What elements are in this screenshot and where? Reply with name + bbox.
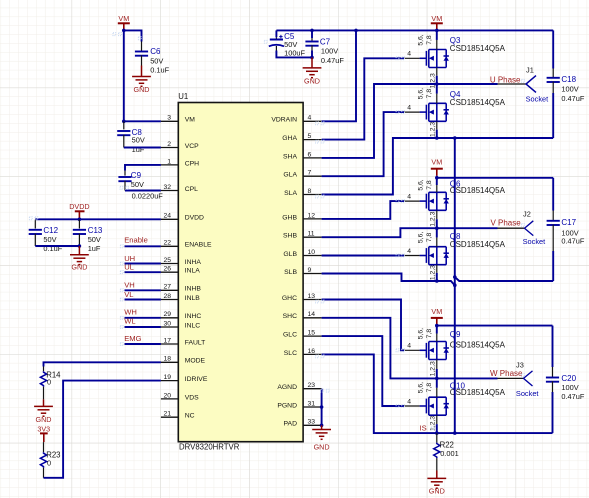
svg-text:4: 4: [308, 115, 312, 122]
wire V Phase node: [322, 228, 498, 237]
svg-text:4: 4: [407, 248, 411, 255]
wire net UL: [125, 271, 161, 273]
svg-text:GND: GND: [314, 442, 330, 451]
capacitor C17: [547, 178, 585, 281]
svg-text:VDRAIN: VDRAIN: [271, 117, 297, 124]
wire C8 to VCP pin 2: [124, 147, 161, 149]
node PGND: [320, 405, 324, 409]
wire SLC / bottom rail C: [322, 354, 553, 433]
U1 pin 28 INLB: [161, 293, 200, 302]
svg-text:C7: C7: [320, 37, 331, 46]
U1 pin 26 INLA: [161, 266, 200, 275]
svg-text:10: 10: [308, 249, 316, 256]
svg-text:0: 0: [47, 459, 51, 468]
svg-text:VDS: VDS: [185, 394, 199, 401]
svg-text:4: 4: [407, 194, 411, 201]
svg-text:1uF: 1uF: [132, 145, 145, 154]
wire net VL: [125, 299, 161, 301]
node bus top: [453, 136, 457, 140]
svg-text:CSD18514Q5A: CSD18514Q5A: [450, 44, 506, 53]
node Q4 source: [435, 136, 439, 140]
wire VM rail B: [437, 176, 553, 178]
svg-text:SHA: SHA: [283, 153, 297, 160]
svg-text:CPL: CPL: [185, 186, 198, 193]
node VM phase A: [435, 29, 439, 33]
svg-text:FAULT: FAULT: [185, 339, 206, 346]
wire VM rail C: [437, 324, 553, 327]
svg-text:U1: U1: [178, 92, 188, 101]
svg-text:SHC: SHC: [283, 313, 297, 320]
svg-text:5,6,: 5,6,: [417, 88, 424, 99]
node VDRAIN/rail: [354, 29, 358, 33]
wire net VH: [125, 289, 161, 291]
svg-text:25: 25: [163, 257, 171, 264]
U1 pin 12 GHB: [282, 212, 321, 221]
svg-text:23: 23: [308, 382, 316, 389]
node phase C: [435, 377, 439, 381]
transistor Q9 CSD18514Q5A: [404, 326, 449, 379]
U1 pin 14 SHC: [283, 311, 322, 320]
svg-text:1uF: 1uF: [88, 244, 101, 253]
svg-text:GLB: GLB: [283, 251, 297, 258]
U1 pin 15 GLC: [283, 330, 322, 339]
wire GLB to Q8 gate: [322, 255, 404, 257]
svg-text:GHC: GHC: [282, 295, 297, 302]
wire C9 to CPL pin 32: [125, 190, 161, 192]
U1 pin 18 MODE: [161, 356, 206, 365]
svg-text:CSD18514Q5A: CSD18514Q5A: [450, 341, 506, 350]
svg-text:EMG: EMG: [124, 334, 141, 343]
wire MODE to R14: [44, 362, 161, 366]
svg-text:VM: VM: [118, 14, 129, 23]
svg-text:PAD: PAD: [284, 421, 298, 428]
ground (C5/C7): [303, 57, 322, 85]
node pin 3 / C8: [122, 120, 126, 124]
svg-text:26: 26: [163, 266, 171, 273]
svg-text:C20: C20: [561, 374, 576, 383]
ground (U1 PAD): [312, 425, 331, 451]
svg-text:5,6,: 5,6,: [417, 179, 424, 190]
capacitor C5 (polarized): [269, 30, 312, 57]
U1 pin 8 SLA: [284, 188, 321, 197]
svg-text:CSD18514Q5A: CSD18514Q5A: [450, 98, 506, 107]
svg-text:J3: J3: [516, 360, 524, 369]
svg-text:C12: C12: [43, 226, 58, 235]
U1 pin 19 IDRIVE: [161, 374, 208, 383]
svg-text:CSD18514Q5A: CSD18514Q5A: [450, 186, 506, 195]
wire GLC to Q10 gate: [322, 336, 404, 406]
svg-text:W Phase: W Phase: [490, 369, 523, 378]
svg-text:6: 6: [308, 151, 312, 158]
svg-text:50V: 50V: [43, 235, 56, 244]
svg-text:1,2,3: 1,2,3: [430, 416, 437, 431]
svg-text:33: 33: [308, 419, 316, 426]
U1 pin 7 GLA: [283, 170, 321, 179]
wire common source bus: [454, 138, 456, 433]
svg-text:C18: C18: [561, 75, 576, 84]
svg-text:V Phase: V Phase: [490, 218, 521, 227]
svg-text:0.001: 0.001: [440, 449, 459, 458]
node C7 top: [310, 29, 314, 33]
svg-text:21: 21: [163, 411, 171, 418]
node PAD: [320, 424, 324, 428]
svg-text:C9: C9: [131, 171, 142, 180]
node bus bottom: [453, 431, 457, 435]
svg-text:MODE: MODE: [185, 358, 206, 365]
svg-text:30: 30: [163, 320, 171, 327]
svg-text:INHC: INHC: [185, 313, 202, 320]
U1 pin 33 PAD: [284, 419, 322, 428]
svg-text:SLA: SLA: [284, 190, 297, 197]
U1 pin 25 INHA: [161, 257, 202, 266]
svg-text:1: 1: [167, 158, 171, 165]
capacitor C6: [135, 42, 170, 75]
wire VM to C6: [124, 30, 142, 41]
connector J1: [498, 65, 549, 103]
svg-text:UH: UH: [124, 254, 135, 263]
svg-text:VM: VM: [431, 158, 442, 167]
svg-text:100uF: 100uF: [284, 49, 305, 58]
svg-text:15: 15: [308, 330, 316, 337]
svg-text:5,6,: 5,6,: [417, 34, 424, 45]
transistor Q8 CSD18514Q5A: [404, 228, 449, 281]
svg-text:VM: VM: [431, 14, 442, 23]
wire GHB to Q6 gate: [322, 201, 404, 219]
svg-text:1,2,3: 1,2,3: [430, 73, 437, 88]
svg-text:INLC: INLC: [185, 322, 201, 329]
capacitor C13: [73, 219, 103, 253]
capacitor C8: [117, 121, 145, 154]
svg-text:VM: VM: [431, 307, 442, 316]
svg-text:12: 12: [308, 212, 316, 219]
svg-text:13: 13: [308, 293, 316, 300]
svg-text:8: 8: [308, 188, 312, 195]
U1 pin 10 GLB: [283, 249, 321, 258]
U1 pin 9 SLB: [284, 267, 321, 276]
svg-text:28: 28: [163, 293, 171, 300]
svg-text:INLA: INLA: [185, 268, 201, 275]
capacitor C12: [29, 219, 63, 253]
svg-text:27: 27: [163, 284, 171, 291]
svg-text:5,6,: 5,6,: [417, 232, 424, 243]
U1 pin 20 VDS: [161, 392, 199, 401]
U1 pin 16 SLC: [284, 348, 322, 357]
U1 pin 29 INHC: [161, 311, 202, 320]
op-amp/IC U1 DRV8320HRTVR body: [178, 103, 303, 442]
wire net WH: [125, 317, 161, 319]
svg-text:100V: 100V: [561, 383, 578, 392]
wire net WL: [125, 326, 161, 328]
svg-text:CSD18514Q5A: CSD18514Q5A: [450, 388, 506, 397]
capacitor C18: [547, 30, 585, 138]
ground (C6): [132, 66, 151, 95]
node Q8 source: [435, 279, 439, 283]
svg-text:AGND: AGND: [277, 384, 297, 391]
power flag 3V3: [37, 425, 50, 442]
wire C12 to C13 bottom: [35, 245, 79, 247]
svg-text:WH: WH: [124, 308, 137, 317]
svg-text:IDRIVE: IDRIVE: [185, 376, 208, 383]
node bus jog upper: [453, 275, 457, 279]
svg-text:ENABLE: ENABLE: [185, 242, 212, 249]
svg-text:DVDD: DVDD: [185, 215, 204, 222]
U1 pin 5 GHA: [282, 133, 321, 142]
capacitor C7: [305, 30, 344, 65]
U1 pin 1 CPH: [161, 158, 199, 167]
svg-text:0.0220uF: 0.0220uF: [132, 191, 164, 200]
node bus jog lower: [453, 283, 457, 287]
svg-text:5: 5: [308, 133, 312, 140]
svg-text:GLC: GLC: [283, 332, 297, 339]
svg-text:C13: C13: [88, 226, 103, 235]
svg-text:5,6,: 5,6,: [417, 328, 424, 339]
svg-text:NC: NC: [185, 413, 195, 420]
svg-text:4: 4: [407, 51, 411, 58]
svg-text:3: 3: [167, 115, 171, 122]
wire DVDD to pin 24: [35, 218, 161, 220]
svg-text:7,8: 7,8: [426, 329, 433, 339]
svg-text:GHB: GHB: [282, 214, 297, 221]
node C13 bottom: [78, 244, 82, 248]
svg-text:DRV8320HRTVR: DRV8320HRTVR: [179, 442, 240, 451]
svg-text:INLB: INLB: [185, 295, 201, 302]
node VM top-left: [122, 29, 126, 33]
svg-text:C6: C6: [150, 47, 161, 56]
compile/no-ERC marks: [29, 33, 524, 430]
svg-text:100V: 100V: [321, 47, 338, 56]
svg-text:J1: J1: [526, 65, 534, 74]
svg-text:SHB: SHB: [283, 233, 297, 240]
U1 pin 6 SHA: [283, 151, 322, 160]
svg-text:24: 24: [163, 213, 171, 220]
svg-text:14: 14: [308, 311, 316, 318]
svg-text:1,2,3: 1,2,3: [430, 361, 437, 376]
svg-text:VCP: VCP: [185, 143, 199, 150]
svg-text:SLC: SLC: [284, 350, 297, 357]
wire net UH: [125, 263, 161, 265]
node C5/C7 bottom: [310, 56, 314, 60]
svg-text:20: 20: [163, 392, 171, 399]
U1 pin 32 CPL: [161, 184, 198, 193]
svg-text:9: 9: [308, 267, 312, 274]
svg-text:7,8: 7,8: [426, 35, 433, 45]
svg-text:100V: 100V: [561, 84, 578, 93]
power flag DVDD: [69, 202, 89, 219]
svg-text:29: 29: [163, 311, 171, 318]
svg-text:GND: GND: [429, 487, 445, 496]
ground (R22): [427, 471, 446, 496]
U1 pin 17 FAULT: [161, 337, 205, 346]
svg-text:19: 19: [163, 374, 171, 381]
svg-text:0.47uF: 0.47uF: [561, 94, 584, 103]
svg-text:SLB: SLB: [284, 269, 297, 276]
svg-text:GND: GND: [71, 263, 87, 272]
svg-text:J2: J2: [523, 210, 531, 219]
transistor Q3 CSD18514Q5A: [404, 30, 449, 88]
U1 pin 23 AGND: [277, 382, 321, 391]
svg-text:GLA: GLA: [283, 172, 297, 179]
svg-text:PGND: PGND: [277, 402, 297, 409]
svg-text:UL: UL: [124, 263, 134, 272]
power flag VM (phase C): [431, 307, 443, 325]
svg-text:GHA: GHA: [282, 135, 297, 142]
svg-text:INHB: INHB: [185, 286, 202, 293]
svg-text:0.47uF: 0.47uF: [561, 236, 584, 245]
U1 pin 31 PGND: [277, 400, 321, 409]
svg-text:1,2,3: 1,2,3: [430, 265, 437, 280]
svg-text:CSD18514Q5A: CSD18514Q5A: [450, 240, 506, 249]
svg-text:0.1uF: 0.1uF: [150, 66, 169, 75]
connector J3: [498, 360, 539, 398]
U1 pin 13 GHC: [282, 293, 322, 302]
svg-text:18: 18: [163, 356, 171, 363]
wire AGND/PGND/PAD: [321, 389, 323, 426]
U1 pin 11 SHB: [283, 231, 322, 240]
svg-text:50V: 50V: [131, 180, 144, 189]
wire SLA / bottom rail A: [322, 138, 554, 195]
svg-text:0.47uF: 0.47uF: [561, 392, 584, 401]
svg-text:VH: VH: [124, 281, 135, 290]
svg-text:4: 4: [407, 105, 411, 112]
svg-text:C17: C17: [561, 218, 576, 227]
svg-text:11: 11: [308, 231, 315, 238]
svg-text:50V: 50V: [132, 136, 145, 145]
svg-text:2: 2: [167, 141, 171, 148]
wire net EMG: [125, 343, 161, 345]
wire VM down to pin 3: [124, 30, 161, 121]
connector J2: [498, 210, 546, 246]
wire VDRAIN riser: [322, 30, 356, 121]
svg-text:0.47uF: 0.47uF: [321, 56, 344, 65]
svg-text:CPH: CPH: [185, 160, 199, 167]
svg-text:Socket: Socket: [516, 389, 539, 398]
svg-text:4: 4: [407, 398, 411, 405]
svg-text:17: 17: [163, 337, 171, 344]
resistor R23: [40, 442, 60, 478]
power flag VM (top-left): [118, 14, 130, 30]
svg-text:50V: 50V: [88, 235, 101, 244]
node Q10 source / R22: [435, 431, 439, 435]
U1 pin 27 INHB: [161, 284, 202, 293]
svg-text:7,8: 7,8: [426, 232, 433, 242]
U1 pin 21 NC: [161, 411, 195, 420]
wire W Phase node: [322, 318, 498, 379]
U1 pin 30 INLC: [161, 320, 200, 329]
wire SLB to bus: [322, 274, 455, 286]
svg-text:INHA: INHA: [185, 259, 202, 266]
svg-text:7,8: 7,8: [426, 89, 433, 99]
ground (R14): [34, 399, 53, 424]
resistor R14: [40, 367, 61, 400]
svg-text:1,2,3: 1,2,3: [430, 211, 437, 226]
wire rail B right: [455, 277, 553, 281]
wire U Phase node: [322, 84, 498, 158]
transistor Q4 CSD18514Q5A: [404, 84, 449, 138]
wire R23 to IDRIVE: [44, 381, 161, 478]
svg-text:WL: WL: [124, 317, 135, 326]
U1 pin 2 VCP: [161, 141, 199, 150]
svg-text:GND: GND: [36, 415, 52, 424]
svg-text:VM: VM: [185, 117, 196, 124]
wire CPH pin 1 to C9: [125, 165, 161, 171]
U1 pin 24 DVDD: [161, 213, 204, 222]
svg-text:IS: IS: [420, 423, 427, 432]
wire top VM rail: [276, 29, 553, 31]
svg-text:Socket: Socket: [523, 237, 546, 246]
svg-text:U Phase: U Phase: [490, 76, 521, 85]
U1 pin 22 ENABLE: [161, 240, 212, 249]
wire GLA to Q4 gate: [322, 112, 404, 176]
U1 pin 3 VM: [161, 115, 195, 124]
svg-text:DVDD: DVDD: [69, 202, 89, 211]
power flag VM (phase B): [431, 158, 443, 176]
ground (C12/C13): [70, 246, 89, 272]
svg-text:Enable: Enable: [124, 235, 148, 244]
svg-text:16: 16: [308, 348, 316, 355]
wire GHA to Q3 gate: [322, 58, 404, 139]
capacitor C20: [546, 326, 585, 434]
svg-text:R22: R22: [440, 440, 454, 449]
svg-text:Socket: Socket: [526, 94, 549, 103]
svg-text:3V3: 3V3: [37, 425, 50, 434]
svg-text:4: 4: [407, 343, 411, 350]
node phase A: [435, 82, 439, 86]
svg-text:31: 31: [308, 400, 316, 407]
svg-text:GND: GND: [134, 85, 150, 94]
svg-text:0: 0: [47, 378, 51, 387]
svg-text:22: 22: [163, 240, 171, 247]
power flag VM (phase A): [431, 14, 443, 30]
svg-text:5,6,: 5,6,: [417, 382, 424, 393]
node VM phase C: [435, 324, 439, 328]
node VM phase B: [435, 176, 439, 180]
transistor Q10 CSD18514Q5A: [404, 378, 449, 433]
svg-text:VL: VL: [124, 290, 133, 299]
resistor R22: [434, 433, 459, 470]
U1 pin 4 VDRAIN: [271, 115, 321, 124]
svg-text:GND: GND: [304, 77, 320, 86]
svg-text:50V: 50V: [150, 57, 163, 66]
svg-text:7,8: 7,8: [426, 180, 433, 190]
wire net Enable: [125, 245, 161, 247]
node DVDD: [78, 218, 82, 222]
svg-text:32: 32: [163, 184, 171, 191]
svg-text:1,2,3: 1,2,3: [430, 122, 437, 137]
svg-text:7,8: 7,8: [426, 383, 433, 393]
svg-text:7: 7: [308, 170, 312, 177]
node phase B: [435, 226, 439, 230]
wire GHC to Q9 gate: [322, 300, 404, 351]
capacitor C9: [118, 171, 163, 201]
transistor Q6 CSD18514Q5A: [404, 178, 449, 228]
